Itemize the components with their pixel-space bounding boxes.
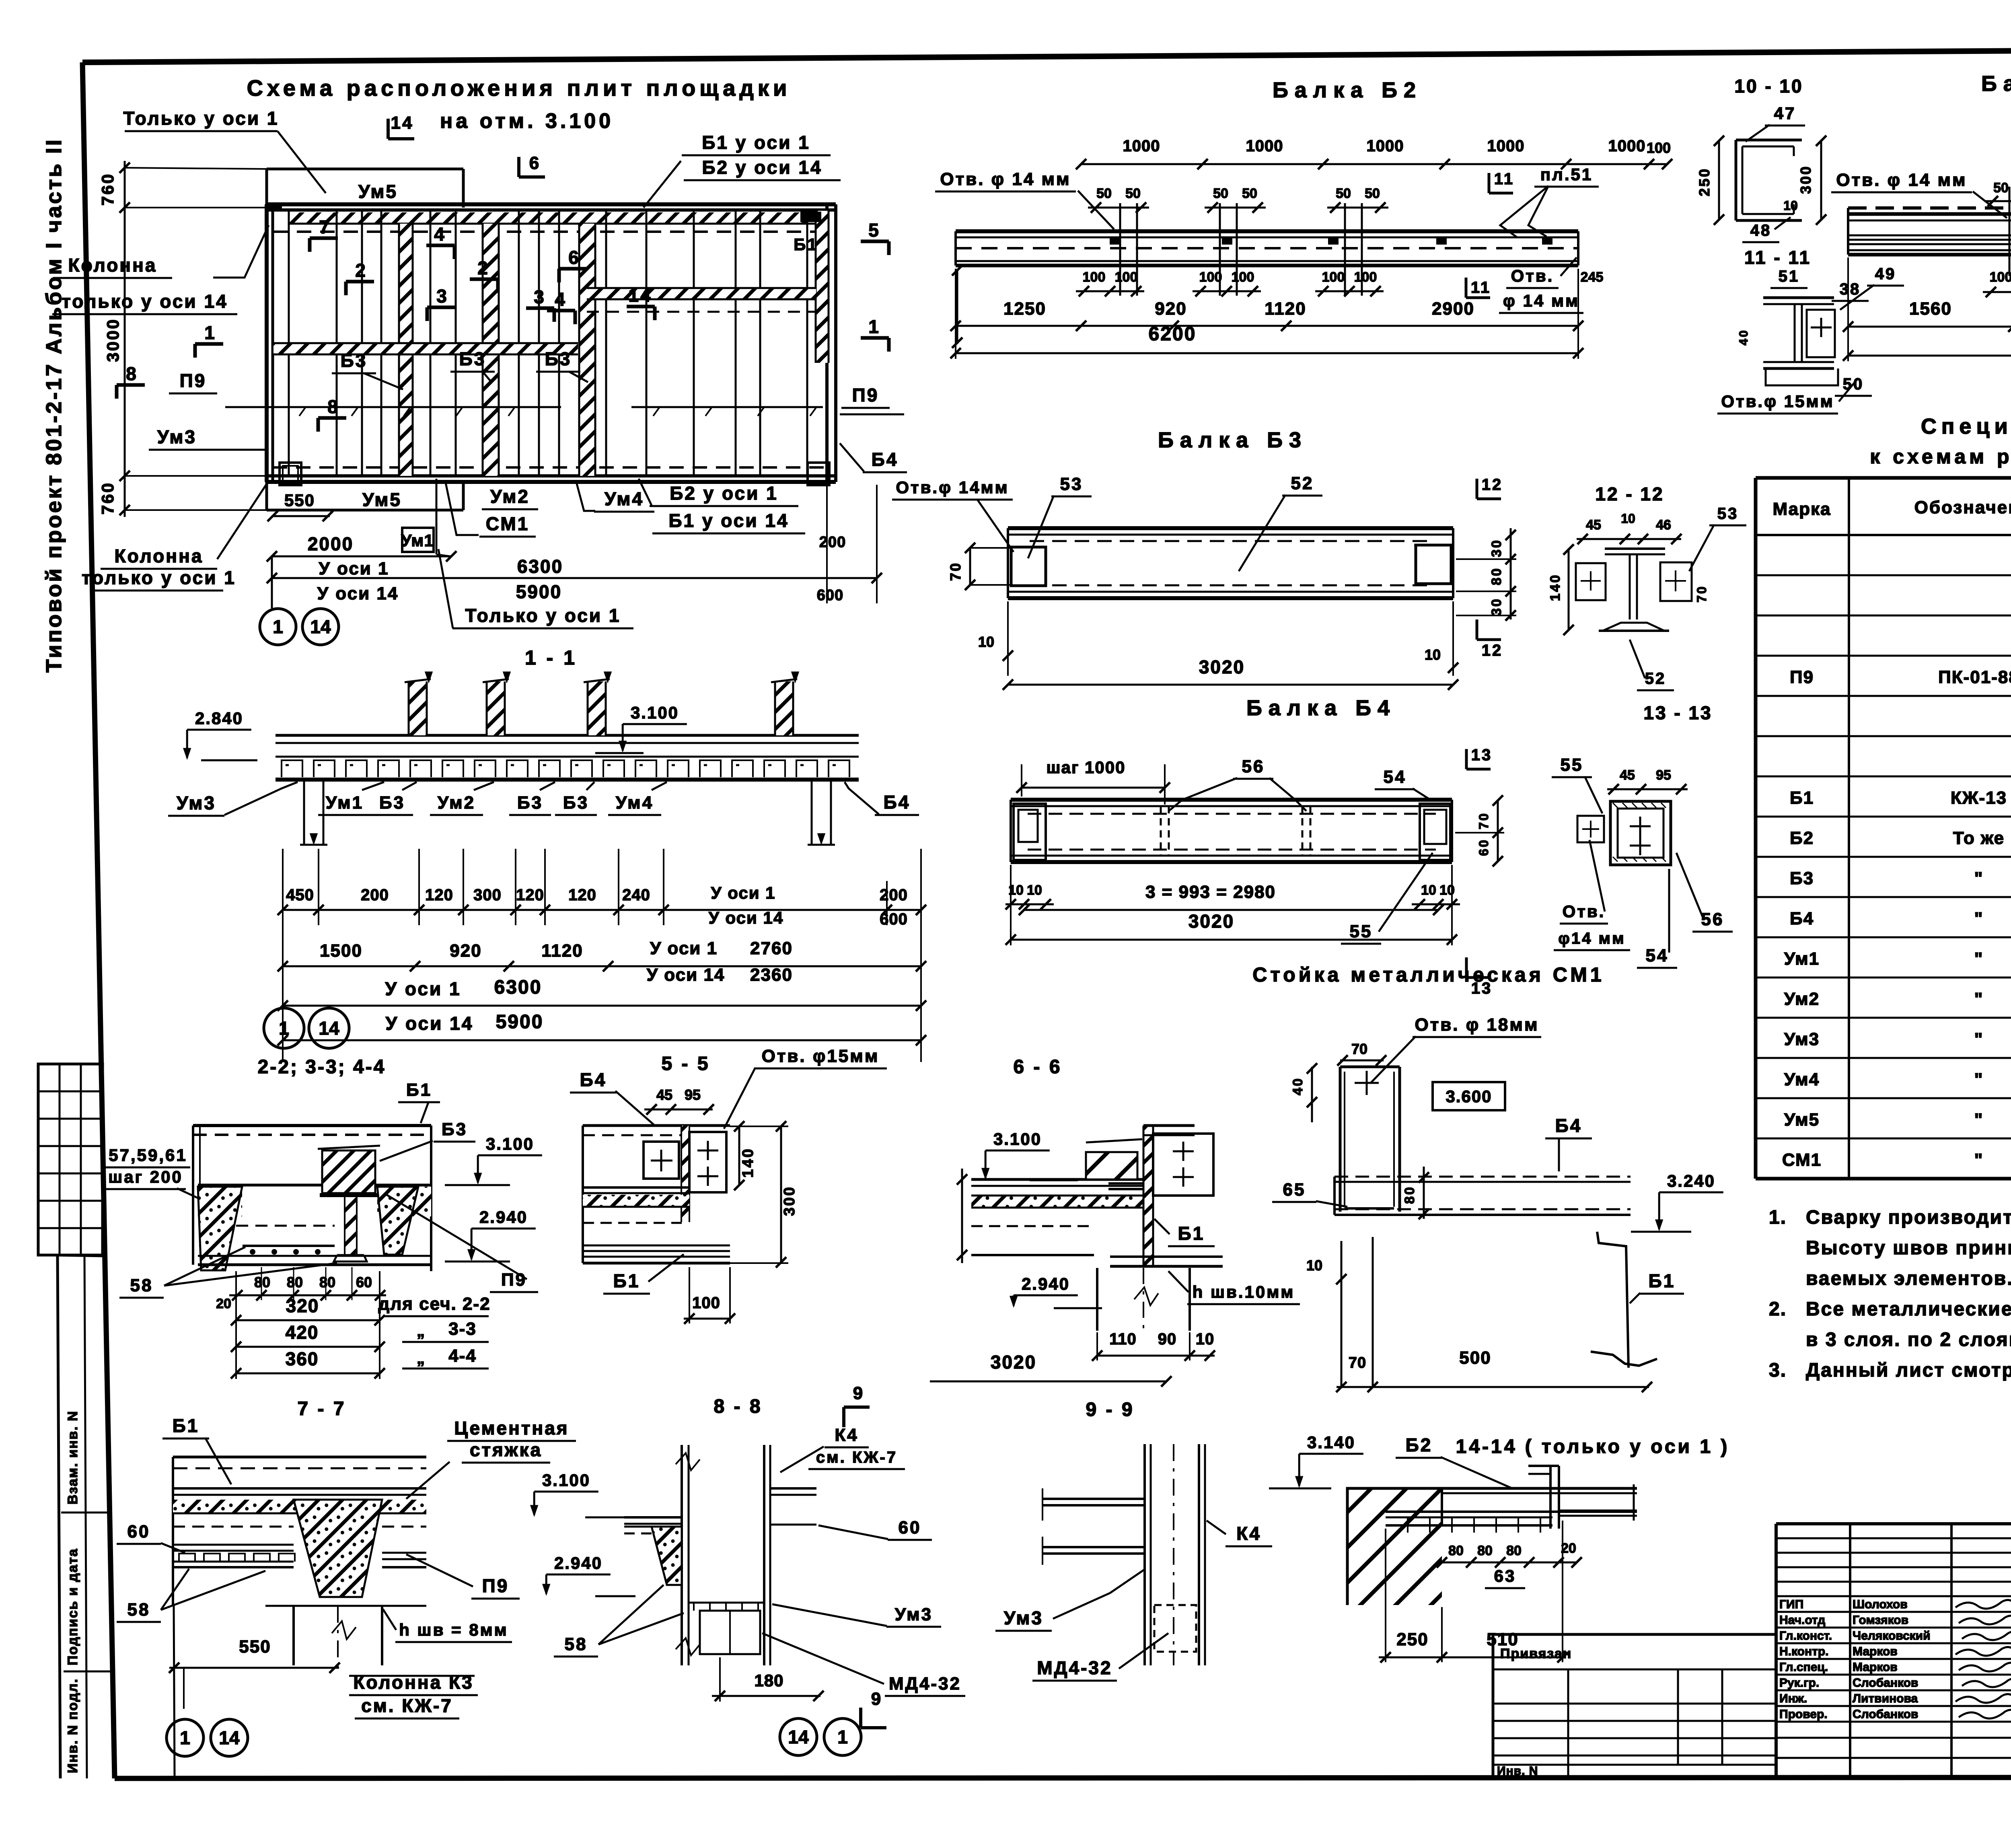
svg-text:70: 70 [1694,585,1709,603]
svg-text:14: 14 [391,113,414,133]
sec2-2 slab top line [198,1184,322,1187]
svg-text:стяжка: стяжка [470,1439,542,1460]
svg-text:Гл.конст.: Гл.конст. [1779,1629,1832,1642]
section 9 flag bottom [859,1708,862,1728]
svg-text:920: 920 [1155,299,1186,319]
left margin stamp strip [58,1255,60,1778]
svg-text:2900: 2900 [1432,299,1474,319]
titleblock signature table outer [1776,1522,2011,1525]
svg-text:6 - 6: 6 - 6 [1013,1056,1062,1078]
vertical extension lines dims [282,849,284,925]
svg-text:6: 6 [568,247,580,268]
svg-text:Отв.: Отв. [1563,902,1606,921]
svg-text:3020: 3020 [991,1352,1036,1373]
svg-text:100: 100 [1647,140,1671,156]
svg-text:140: 140 [740,1147,757,1177]
sec8-8 beam right [770,1487,816,1490]
beam B4 body [1011,798,1452,802]
sec7-7 slab plates left [173,1526,294,1528]
svg-text:60: 60 [127,1522,150,1541]
svg-text:200: 200 [880,886,908,904]
svg-text:": " [1974,909,1984,928]
svg-text:Б2: Б2 [1406,1434,1433,1455]
14-14 wall hatched [1347,1488,1442,1605]
svg-text:10: 10 [1783,198,1798,213]
beam B3 body [1008,526,1453,530]
svg-text:9: 9 [853,1383,864,1403]
svg-text:14: 14 [219,1727,240,1748]
svg-text:пл.51: пл.51 [1540,165,1593,184]
svg-text:Б4: Б4 [872,449,899,470]
svg-text:У оси 1: У оси 1 [711,883,775,902]
svg-text:Колонна: Колонна [115,545,204,566]
svg-text:см. КЖ-7: см. КЖ-7 [816,1449,897,1466]
svg-text:51: 51 [1779,268,1800,285]
svg-text:100: 100 [1354,270,1377,285]
svg-text:6300: 6300 [517,556,563,577]
sec2-2 dashed line mid slab [236,1225,335,1227]
svg-text:54: 54 [1384,767,1406,787]
svg-text:У оси 1: У оси 1 [319,559,389,578]
svg-text:46: 46 [1656,517,1671,533]
svg-text:2000: 2000 [308,533,354,554]
svg-text:11: 11 [1471,279,1491,296]
svg-text:Б3: Б3 [1790,868,1814,888]
sec2-2 plate row with rivets [243,1245,335,1247]
B3 flag 12 top [1476,479,1478,499]
svg-text:3020: 3020 [1189,911,1234,932]
svg-text:Данный лист смотреть совмес: Данный лист смотреть совместно с листами… [1806,1360,2011,1381]
svg-text:45: 45 [1620,768,1635,783]
svg-text:920: 920 [450,941,481,961]
sec6-6 bottom flange foot [1108,1182,1143,1185]
plan slab outline [267,202,836,206]
svg-text:120: 120 [425,886,453,904]
svg-text:3.100: 3.100 [993,1130,1042,1148]
svg-text:300: 300 [1797,165,1814,194]
svg-text:4: 4 [434,224,446,245]
svg-text:Ум3: Ум3 [177,792,216,813]
svg-text:80: 80 [1477,1543,1493,1558]
svg-text:К4: К4 [835,1425,858,1445]
svg-text:Взам. инв. N: Взам. инв. N [65,1410,80,1504]
svg-text:57,59,61: 57,59,61 [109,1146,187,1165]
svg-text:9: 9 [871,1689,882,1709]
svg-text:56: 56 [1701,910,1724,929]
svg-text:1250: 1250 [1003,299,1046,319]
B4 flag 13 top [1465,749,1468,769]
svg-text:Б3: Б3 [517,793,543,813]
svg-text:Б1 у оси 1: Б1 у оси 1 [702,132,810,153]
9-9 beams at left [1043,1498,1145,1500]
svg-text:45: 45 [1586,517,1601,533]
column mark top-left [267,204,282,211]
svg-text:50: 50 [1242,186,1257,201]
svg-text:760: 760 [98,173,117,206]
slab band of section 1-1 [276,734,859,737]
svg-text:12: 12 [1482,476,1503,494]
section marker 6 top [517,157,520,177]
svg-text:6: 6 [529,153,541,173]
svg-text:Типовой проект 801-2-17 Аль: Типовой проект 801-2-17 Альбом I часть I… [42,138,66,673]
plan hatched strip B3 no2 [483,224,499,476]
svg-text:Спецификация элементов: Спецификация элементов [1921,414,2011,438]
svg-text:1: 1 [868,316,880,337]
sec8-8 bottom plate and MD4-32 [689,1602,764,1604]
svg-text:360: 360 [286,1348,319,1369]
svg-text:1: 1 [180,1727,190,1748]
svg-text:Сварку производить электрода: Сварку производить электродами Э42 по ГО… [1806,1207,2011,1228]
svg-text:Б1: Б1 [794,235,818,254]
sec2-2 left hatch band and wedge [198,1187,242,1216]
svg-text:200: 200 [361,886,389,904]
svg-text:У оси 1: У оси 1 [385,978,461,999]
svg-text:2.: 2. [1769,1299,1787,1320]
svg-text:Отв. φ 14 мм: Отв. φ 14 мм [1836,170,1967,190]
sec5-5 slab layers [583,1186,689,1189]
svg-text:2.940: 2.940 [479,1208,528,1227]
svg-text:": " [1974,949,1984,969]
svg-text:Высоту швов принимать по н: Высоту швов принимать по наименьшей толщ… [1806,1237,2011,1259]
section 9-9 column [1143,1444,1146,1665]
svg-text:250: 250 [1696,167,1713,196]
svg-text:1500: 1500 [320,941,362,961]
svg-text:14: 14 [628,285,652,306]
column mark bottom-left box [280,463,301,485]
svg-text:МД4-32: МД4-32 [1037,1657,1112,1678]
svg-text:Ум3: Ум3 [1784,1029,1820,1049]
svg-text:550: 550 [284,491,315,510]
svg-text:90: 90 [1158,1330,1177,1348]
svg-text:58: 58 [127,1600,150,1620]
sec2-2 beam B1 top [193,1124,431,1127]
svg-text:10: 10 [1621,511,1635,526]
svg-text:1120: 1120 [541,941,583,961]
svg-text:Отв.φ 15мм: Отв.φ 15мм [1721,392,1834,411]
sec2-2 right hatch band and wedge [377,1187,431,1216]
svg-text:70: 70 [1476,812,1491,829]
svg-text:Нач.отд: Нач.отд [1779,1613,1825,1627]
column mark top-right [800,212,821,222]
svg-text:Отв.φ 14мм: Отв.φ 14мм [896,478,1009,497]
svg-text:3-3: 3-3 [448,1319,477,1339]
break squiggles column bottom [676,1638,700,1655]
svg-text:55: 55 [1350,922,1373,941]
svg-text:1 - 1: 1 - 1 [525,646,577,669]
svg-text:Марков: Марков [1853,1645,1898,1658]
svg-text:Б4: Б4 [884,792,911,813]
svg-text:Б2: Б2 [1790,828,1814,848]
beam B2 section 11 flag top [1488,173,1491,193]
svg-text:К4: К4 [1236,1523,1261,1544]
svg-text:40: 40 [1737,329,1750,345]
svg-text:см. КЖ-7: см. КЖ-7 [361,1695,453,1716]
sec6-6 hatched column above [1086,1152,1137,1179]
plan bottom dashed line [273,466,827,469]
level 3.600 mark [1433,1082,1505,1110]
svg-text:Гомзяков: Гомзяков [1853,1613,1908,1627]
sec7-7 middle hatched wedge [294,1500,382,1597]
svg-text:13: 13 [1471,746,1493,764]
svg-text:56: 56 [1242,757,1265,776]
svg-text:6200: 6200 [1149,323,1197,345]
svg-text:70: 70 [1351,1041,1367,1057]
svg-text:120: 120 [568,886,596,904]
svg-text:100: 100 [1990,270,2011,285]
svg-text:250: 250 [1396,1630,1428,1649]
svg-text:58: 58 [130,1276,153,1295]
svg-text:Б1 у оси 14: Б1 у оси 14 [668,510,789,531]
sec2-2 I-beam below column [320,1193,380,1197]
plan hatched strip B3 no1 [399,224,413,476]
svg-text:10 - 10: 10 - 10 [1734,76,1803,97]
svg-text:Привязан: Привязан [1500,1646,1572,1661]
svg-text:Шолохов: Шолохов [1853,1598,1908,1611]
svg-text:Б2 у оси 1: Б2 у оси 1 [670,483,778,504]
svg-text:70: 70 [947,562,964,581]
svg-text:30: 30 [1489,597,1504,616]
sec11-11 I profile [1763,296,1834,299]
Um5 top shelf [267,168,463,171]
svg-text:Б2 у оси 14: Б2 у оси 14 [702,157,822,178]
14-14 slab [1442,1487,1637,1490]
svg-text:У оси 14: У оси 14 [709,908,783,927]
svg-text:80: 80 [254,1274,270,1290]
beam B3 right end plate [1416,545,1451,584]
B4 flag 13 bottom [1465,957,1468,978]
svg-text:в 3 слоя. по 2 слоям грунто: в 3 слоя. по 2 слоям грунтовки ХС-010. [1806,1329,2011,1350]
svg-text:Б1: Б1 [1178,1223,1205,1244]
plan hatched strip B1 right [816,211,829,363]
svg-text:": " [1974,1070,1984,1089]
svg-text:53: 53 [1717,505,1739,523]
svg-text:Слобанков: Слобанков [1853,1676,1918,1690]
svg-text:": " [1974,1150,1984,1170]
svg-text:40: 40 [1290,1077,1306,1095]
svg-text:КЖ-13: КЖ-13 [1951,788,2007,808]
svg-text:1: 1 [204,322,216,343]
svg-text:Ум4: Ум4 [605,488,644,509]
svg-text:Схема расположения плит пло: Схема расположения плит площадки [247,75,791,101]
plan vertical plate joints [288,210,290,476]
spec table outer border [1756,476,2011,480]
P9 leader line right [631,406,823,408]
svg-text:3000: 3000 [103,318,122,362]
plan hatched strip B3 no3 [579,224,595,476]
svg-text:50: 50 [1365,186,1380,201]
svg-text:Колонна: Колонна [68,255,157,276]
svg-text:": " [1974,868,1984,888]
svg-text:Инв. N подл.: Инв. N подл. [65,1678,80,1773]
channel plate profiles in slab [276,756,859,758]
svg-text:60: 60 [899,1518,921,1537]
svg-text:Б4: Б4 [1790,909,1814,928]
svg-text:600: 600 [817,587,843,604]
svg-text:11: 11 [1494,170,1514,188]
svg-text:У оси 14: У оси 14 [317,584,399,603]
svg-text:14: 14 [310,616,331,637]
plan mid hatch band left [273,343,578,354]
svg-text:Инв. N: Инв. N [1497,1764,1538,1778]
svg-text:Балка Б3: Балка Б3 [1158,428,1308,452]
svg-text:Инж.: Инж. [1779,1692,1807,1705]
beam B2 weld tabs [1110,238,1120,245]
svg-text:Только у оси 1: Только у оси 1 [465,605,621,626]
svg-text:У оси 14: У оси 14 [647,965,725,985]
left margin approval grid [38,1064,103,1255]
svg-text:13: 13 [1471,980,1493,997]
sec7-7 beam box [173,1456,426,1459]
beam B1 shelf cut lines [1882,220,2011,221]
svg-text:": " [1974,1029,1984,1049]
svg-text:Обозначение: Обозначение [1914,498,2011,517]
svg-text:Ум3: Ум3 [157,426,197,447]
svg-text:100: 100 [1322,270,1345,285]
svg-text:80: 80 [1402,1185,1417,1204]
svg-text:П9: П9 [852,385,879,405]
plan top hatch band [289,212,827,224]
privyazan table [1493,1633,1776,1636]
svg-text:245: 245 [1581,270,1604,285]
svg-text:φ14 мм: φ14 мм [1558,930,1625,947]
svg-text:ваемых элементов.: ваемых элементов. [1806,1268,2011,1289]
svg-text:2.940: 2.940 [554,1554,602,1572]
sec2-2 hatched column [322,1150,375,1193]
svg-text:120: 120 [516,886,544,904]
svg-text:φ 14 мм: φ 14 мм [1503,291,1579,310]
svg-text:Челяковский: Челяковский [1853,1629,1931,1642]
beam B1 body [1848,206,2011,210]
svg-text:Ум5: Ум5 [1784,1110,1820,1130]
sec10-10 channel profile [1735,140,1738,220]
svg-text:500: 500 [1459,1348,1491,1368]
svg-text:У оси 1: У оси 1 [650,938,718,958]
svg-text:Все металлические конструкци: Все металлические конструкции окрасить л… [1806,1299,2011,1320]
hatched columns above slab [409,681,427,735]
svg-text:55: 55 [1561,755,1583,775]
svg-text:100: 100 [692,1294,720,1312]
svg-text:30: 30 [1489,539,1504,557]
svg-text:П9: П9 [180,370,207,391]
svg-text:Литвинова: Литвинова [1853,1692,1918,1705]
svg-text:4-4: 4-4 [448,1346,477,1366]
svg-text:53: 53 [1060,474,1083,494]
svg-text:МД4-32: МД4-32 [889,1674,961,1694]
svg-text:3.100: 3.100 [631,703,679,722]
svg-text:3.100: 3.100 [542,1471,590,1490]
section flags inside plan [310,237,338,240]
axis circles 1 and 14 [260,609,296,645]
svg-text:Гл.спец.: Гл.спец. [1779,1661,1828,1674]
sec8-8 column [681,1445,683,1665]
sec7-7 screed hatch band [173,1500,426,1513]
sheet frame left border [82,62,115,1778]
svg-text:То же: То же [1953,828,2005,848]
svg-text:1000: 1000 [1367,137,1404,155]
beam B3 left end plate [1011,547,1046,586]
svg-text:Н.контр.: Н.контр. [1779,1645,1828,1658]
signature lower blank rows [1776,1737,2011,1739]
beam B4 right end plate [1420,804,1450,860]
sec8-8 hatched wedge [652,1527,682,1585]
svg-text:2760: 2760 [750,938,793,958]
P9 leader line left [225,406,561,408]
svg-text:550: 550 [239,1637,271,1657]
svg-text:80: 80 [1489,567,1504,585]
svg-text:для сеч. 2-2: для сеч. 2-2 [378,1294,490,1314]
svg-text:10: 10 [978,634,994,650]
signature squiggles [1955,1600,2011,1609]
svg-text:8 - 8: 8 - 8 [714,1396,762,1417]
svg-text:10: 10 [1425,646,1441,663]
svg-text:h шв = 8мм: h шв = 8мм [399,1620,508,1639]
svg-text:Б3: Б3 [459,348,486,369]
svg-text:5: 5 [868,220,880,241]
svg-text:65: 65 [1283,1180,1306,1200]
svg-text:Слобанков: Слобанков [1853,1708,1918,1721]
svg-text:100: 100 [1083,270,1106,285]
svg-text:300: 300 [781,1185,798,1216]
svg-text:1000: 1000 [1246,137,1283,155]
svg-text:Ум5: Ум5 [362,489,402,510]
svg-text:2.840: 2.840 [195,709,243,728]
svg-text:100: 100 [1199,270,1222,285]
svg-text:ГИП: ГИП [1779,1598,1803,1611]
svg-text:Балка Б2: Балка Б2 [1273,78,1422,102]
svg-text:1000: 1000 [1608,137,1646,155]
svg-text:Б3: Б3 [341,350,368,371]
svg-text:П9: П9 [1790,667,1814,687]
sec11-11 bottom angle [1766,368,1838,385]
14-14 bolt ticks [1407,1517,1409,1533]
svg-text:Рук.гр.: Рук.гр. [1779,1676,1819,1690]
svg-text:3.100: 3.100 [486,1134,534,1153]
svg-text:Б3: Б3 [379,793,405,813]
svg-text:60: 60 [1476,838,1491,856]
svg-text:54: 54 [1646,946,1669,965]
svg-text:Провер.: Провер. [1779,1708,1828,1721]
svg-text:3: 3 [534,286,546,307]
svg-text:60: 60 [356,1274,372,1290]
svg-text:П9: П9 [501,1270,527,1290]
svg-text:3.600: 3.600 [1446,1087,1492,1106]
svg-text:320: 320 [286,1295,319,1316]
svg-text:Марка: Марка [1772,499,1831,519]
sec6-6 slab [971,1178,1143,1181]
svg-text:Только у оси 1: Только у оси 1 [123,108,279,129]
svg-text:20: 20 [216,1296,231,1311]
svg-text:3020: 3020 [1199,656,1245,677]
sec13-13 small plate left [1577,816,1604,842]
svg-text:47: 47 [1774,104,1796,123]
SM1 hole and dim 70 [1366,1071,1368,1095]
sec12-12 side plates [1576,563,1606,600]
svg-text:Б1: Б1 [613,1270,640,1291]
svg-text:14-14 ( только у оси 1 ): 14-14 ( только у оси 1 ) [1456,1436,1730,1457]
svg-text:48: 48 [1750,222,1772,239]
svg-text:1: 1 [273,616,283,637]
SM1 bottom plate 65 [1345,1207,1394,1210]
svg-text:1: 1 [837,1727,848,1747]
svg-text:на отм. 3.100: на отм. 3.100 [440,109,614,133]
svg-text:3 = 993 = 2980: 3 = 993 = 2980 [1145,882,1276,902]
svg-text:Б4: Б4 [1555,1115,1582,1136]
svg-text:": " [1974,989,1984,1009]
svg-text:Ум2: Ум2 [438,793,475,813]
sec5-5 hatched vertical plate [681,1126,689,1222]
svg-text:49: 49 [1875,265,1896,283]
B1 channel below right [1597,1232,1629,1368]
